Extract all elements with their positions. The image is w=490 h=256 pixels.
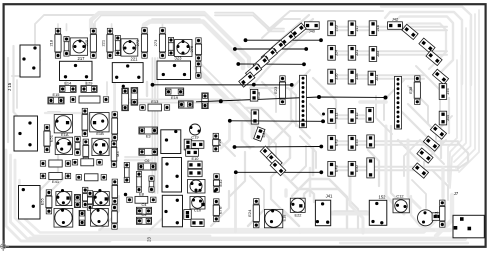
jumper E33 xyxy=(239,72,255,87)
svg-text:E43: E43 xyxy=(333,139,338,146)
svg-text:E8: E8 xyxy=(139,191,145,196)
capacitor 274 xyxy=(168,37,173,55)
capacitor C9 xyxy=(136,212,151,224)
pad node n3 xyxy=(102,175,105,178)
resistor 221 xyxy=(101,28,113,58)
IC U1 body xyxy=(161,130,181,154)
jumper J47 xyxy=(367,135,375,148)
svg-text:E50: E50 xyxy=(354,165,359,173)
transistor C13 xyxy=(418,210,434,226)
svg-text:221: 221 xyxy=(131,57,139,62)
transistor E1B xyxy=(90,113,109,137)
wire net C xyxy=(236,62,305,66)
capacitor E21a xyxy=(131,88,138,106)
jumper J20 xyxy=(328,21,336,36)
jumper J38 xyxy=(290,23,306,38)
jumper J26 xyxy=(328,69,336,84)
svg-text:E45: E45 xyxy=(354,139,359,146)
transistor B9 xyxy=(91,208,109,226)
capacitor C4 xyxy=(136,202,151,214)
resistor B8 xyxy=(112,205,118,229)
resistor E28 xyxy=(213,133,222,151)
capacitor C6 xyxy=(138,158,156,170)
svg-text:J31: J31 xyxy=(374,75,379,81)
resistor E24 xyxy=(247,199,259,228)
jumper J18 xyxy=(369,21,377,36)
transistor 275 xyxy=(175,40,193,57)
connector 152 body xyxy=(369,195,387,226)
jumper J50 xyxy=(426,50,442,65)
jumper J28 xyxy=(348,69,356,84)
jumper E12 xyxy=(348,109,356,124)
resistor E42 xyxy=(72,159,102,166)
capacitor A6 xyxy=(184,139,192,150)
svg-text:M3: M3 xyxy=(115,151,120,157)
resistor E26 xyxy=(70,96,108,103)
capacitor E17 xyxy=(178,101,193,108)
resistor B1 xyxy=(40,190,52,214)
jumper J45 xyxy=(439,111,447,125)
jumper E49 xyxy=(270,160,286,176)
connector H2 xyxy=(395,76,402,129)
capacitor 222 xyxy=(115,35,120,55)
resistor E52 xyxy=(75,136,80,155)
capacitor C7 xyxy=(124,162,129,182)
jumper E50 xyxy=(348,161,356,176)
jumper J33 xyxy=(369,47,377,62)
jumper J24 xyxy=(328,45,336,60)
svg-text:J41: J41 xyxy=(326,194,333,199)
svg-text:J40: J40 xyxy=(309,29,316,34)
svg-text:E23: E23 xyxy=(273,86,278,94)
svg-text:J7: J7 xyxy=(454,191,459,196)
resistor E32 xyxy=(213,174,222,192)
svg-text:J46: J46 xyxy=(445,88,450,94)
svg-text:23: 23 xyxy=(147,237,152,242)
capacitor E27 xyxy=(188,169,202,177)
svg-text:E1b: E1b xyxy=(256,92,261,99)
capacitor 277 xyxy=(196,61,201,78)
jumper E45 xyxy=(348,135,356,150)
jumper J31 xyxy=(368,71,376,85)
svg-text:272: 272 xyxy=(135,39,140,46)
capacitor E3 xyxy=(139,127,158,138)
transistor E18 xyxy=(264,209,286,227)
capacitor E4 xyxy=(139,148,158,155)
transistor B2 xyxy=(56,189,72,206)
wire net G xyxy=(228,119,325,123)
svg-text:J21: J21 xyxy=(354,50,359,56)
resistor E20 xyxy=(82,108,88,136)
svg-text:E12: E12 xyxy=(354,112,359,119)
resistor K1 xyxy=(433,200,445,227)
svg-text:E32: E32 xyxy=(218,179,223,187)
wire net H xyxy=(151,83,294,87)
resistor B10 xyxy=(112,179,118,204)
jumper E43 xyxy=(328,135,336,150)
capacitor E62 xyxy=(191,141,204,149)
transistor E5 xyxy=(55,137,72,154)
svg-text:323: 323 xyxy=(175,56,183,61)
svg-text:E48: E48 xyxy=(333,165,338,172)
transistor E22 xyxy=(290,198,305,217)
svg-text:E34: E34 xyxy=(261,130,266,138)
svg-text:J 15: J 15 xyxy=(7,82,12,91)
resistor E38 xyxy=(408,76,420,105)
resistor E23 xyxy=(273,76,285,105)
jumper J21 xyxy=(348,45,356,60)
transistor E1A xyxy=(54,115,72,138)
svg-text:C6: C6 xyxy=(145,158,150,163)
trimmer 212 xyxy=(60,56,93,81)
svg-text:E1A: E1A xyxy=(61,132,69,137)
svg-text:J18: J18 xyxy=(375,25,380,31)
svg-text:273: 273 xyxy=(153,39,158,46)
connector J41 body xyxy=(315,194,333,226)
transistor C12 xyxy=(393,194,409,213)
svg-text:C4: C4 xyxy=(142,202,148,207)
jumper J34 xyxy=(253,56,269,71)
capacitor E29 xyxy=(81,81,97,93)
capacitor E84 xyxy=(251,110,259,124)
pad node n1 xyxy=(122,85,125,88)
resistor 276 xyxy=(189,38,201,61)
svg-text:E51: E51 xyxy=(48,134,53,142)
pad node n6 xyxy=(213,189,216,192)
svg-text:E14: E14 xyxy=(64,81,72,86)
resistor M3 xyxy=(111,141,120,167)
svg-text:E15: E15 xyxy=(53,92,60,97)
jumper J48 xyxy=(419,38,435,53)
jumper J40 xyxy=(304,22,319,30)
wire net E xyxy=(233,145,324,149)
jumper E46 xyxy=(266,152,282,168)
resistor E7B xyxy=(213,199,222,222)
transistor E9 xyxy=(188,180,206,194)
svg-text:218: 218 xyxy=(49,39,54,46)
jumper J44 xyxy=(402,24,418,39)
connector J7 body xyxy=(453,215,484,238)
jumper E11 xyxy=(328,109,336,124)
svg-text:E41: E41 xyxy=(52,179,60,184)
jumper E48 xyxy=(328,161,336,176)
resistor E51 xyxy=(44,125,53,152)
trimmer 221 xyxy=(112,57,143,83)
svg-text:E24: E24 xyxy=(247,209,252,217)
wire net A xyxy=(244,38,323,42)
transistor C19 xyxy=(189,124,200,139)
jumper J6 xyxy=(417,148,433,163)
svg-text:E55: E55 xyxy=(40,197,45,205)
resistor E8 xyxy=(127,191,156,203)
pad node n4 xyxy=(124,193,127,196)
wire net B xyxy=(233,47,308,51)
resistor B6 xyxy=(87,191,92,211)
transistor B7 xyxy=(93,189,109,206)
resistor E53 xyxy=(83,139,89,163)
capacitor C3 xyxy=(136,172,141,193)
svg-text:J26: J26 xyxy=(333,73,338,79)
resistor B5 xyxy=(83,187,88,207)
svg-text:J42: J42 xyxy=(392,17,398,22)
svg-text:K1: K1 xyxy=(433,210,438,216)
IC U3 body xyxy=(162,195,182,227)
jumper J35 xyxy=(261,48,277,63)
svg-text:J20: J20 xyxy=(333,24,338,31)
svg-text:221: 221 xyxy=(101,39,106,46)
transistor E6 xyxy=(92,138,109,155)
capacitor E10 xyxy=(188,161,202,169)
svg-text:276: 276 xyxy=(189,45,194,52)
svg-text:E29: E29 xyxy=(86,81,93,86)
svg-text:E28: E28 xyxy=(217,138,222,146)
transistor 217 xyxy=(70,38,87,55)
capacitor E16 xyxy=(250,89,257,101)
jumper J0 xyxy=(412,163,428,178)
svg-text:E7B: E7B xyxy=(218,206,223,214)
capacitor C14 xyxy=(432,213,442,221)
connector J17 body xyxy=(19,186,41,220)
svg-text:J28: J28 xyxy=(354,73,359,79)
svg-text:C12: C12 xyxy=(396,194,403,199)
svg-text:J24: J24 xyxy=(333,49,338,56)
pad via2 xyxy=(322,120,325,123)
svg-text:E22: E22 xyxy=(295,213,302,218)
svg-text:J45: J45 xyxy=(445,115,450,121)
trimmer 323 xyxy=(157,56,191,80)
svg-text:E18: E18 xyxy=(282,215,287,222)
svg-text:E19: E19 xyxy=(171,95,178,100)
capacitor C11 xyxy=(184,210,192,220)
capacitor E19 xyxy=(165,88,183,100)
capacitor 219 xyxy=(64,36,69,56)
resistor 220 xyxy=(84,28,96,58)
wire net D (long mid bus) xyxy=(196,95,388,103)
capacitor E15 xyxy=(48,92,64,104)
jumper J36 xyxy=(269,40,285,55)
svg-text:C9: C9 xyxy=(142,212,147,217)
resistor E13 xyxy=(140,99,170,111)
svg-text:J17: J17 xyxy=(354,25,359,31)
pad via1 xyxy=(322,113,325,116)
svg-text:E11: E11 xyxy=(333,113,338,120)
svg-text:152: 152 xyxy=(379,195,387,200)
jumper J42 xyxy=(388,22,403,30)
jumper J43 xyxy=(432,69,448,84)
jumper J49 xyxy=(367,158,375,178)
resistor 272 xyxy=(135,28,147,58)
pad node n5 xyxy=(198,189,201,192)
resistor E41 xyxy=(40,173,70,184)
svg-text:220: 220 xyxy=(84,39,89,46)
capacitor E14 xyxy=(60,81,77,93)
jumper J52 xyxy=(430,124,446,139)
transistor B3 xyxy=(54,208,73,227)
svg-text:E1B: E1B xyxy=(96,131,104,136)
capacitor E21b xyxy=(122,88,129,111)
resistor 218 xyxy=(49,28,61,58)
svg-text:J33: J33 xyxy=(375,51,380,57)
capacitor B11 xyxy=(79,210,85,225)
resistor E47 xyxy=(76,174,106,181)
capacitor E17b xyxy=(202,93,208,109)
registration cross bottom-left xyxy=(0,240,9,251)
jumper J17 xyxy=(348,21,356,36)
svg-text:E13: E13 xyxy=(151,99,159,104)
svg-text:E38: E38 xyxy=(408,86,413,94)
IC U2 body xyxy=(162,158,182,193)
connector J15 body xyxy=(20,45,40,77)
capacitor C5 xyxy=(149,176,154,192)
wire net F xyxy=(234,170,323,174)
transistor 271 xyxy=(121,39,138,56)
svg-text:C19: C19 xyxy=(191,134,198,139)
connector J16 body xyxy=(14,116,38,151)
jumper J32 xyxy=(246,64,262,79)
jumper J51 xyxy=(423,136,439,151)
jumper J37 xyxy=(279,32,295,47)
resistor M1 xyxy=(112,112,118,140)
capacitor E63 xyxy=(186,149,199,157)
svg-text:C10: C10 xyxy=(194,208,202,213)
jumper E44 xyxy=(260,146,276,162)
resistor 273 xyxy=(153,28,165,58)
jumper E34 xyxy=(254,127,265,141)
resistor E40 xyxy=(40,160,70,167)
svg-text:E10: E10 xyxy=(192,156,200,161)
svg-text:217: 217 xyxy=(78,56,86,61)
capacitor B4 xyxy=(75,194,81,207)
connector H1 xyxy=(300,75,307,127)
capacitor E30 xyxy=(191,219,204,227)
jumper J30 xyxy=(366,107,374,122)
svg-text:E3: E3 xyxy=(146,133,151,138)
transistor C10 xyxy=(190,197,205,213)
jumper J46 xyxy=(439,84,447,100)
